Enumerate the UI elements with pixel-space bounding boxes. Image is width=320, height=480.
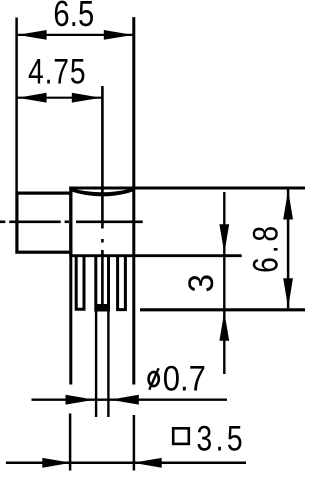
svg-text:6.8: 6.8 bbox=[246, 226, 286, 273]
svg-text:6.5: 6.5 bbox=[53, 0, 94, 35]
svg-text:0.7: 0.7 bbox=[163, 360, 206, 399]
svg-text:3: 3 bbox=[182, 274, 221, 293]
svg-text:3.5: 3.5 bbox=[197, 419, 243, 459]
svg-text:4.75: 4.75 bbox=[28, 51, 86, 91]
